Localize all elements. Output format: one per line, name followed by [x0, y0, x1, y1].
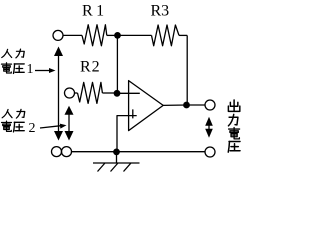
- ground symbol: [93, 152, 140, 172]
- wire: input1 terminal to R1: [63, 34, 82, 36]
- resistor R2: [78, 82, 103, 103]
- arrow: input voltage 2 measure (double-headed, x=69): [68, 110, 70, 136]
- terminal: input 2 (middle left circle): [65, 88, 75, 98]
- label: den-atsu 1 (voltage 1): [2, 63, 12, 73]
- svg-text:2: 2: [29, 121, 36, 136]
- svg-text:R1: R1: [82, 3, 108, 20]
- wire: bottom common rail: [72, 151, 205, 153]
- terminal: output + (top right circle): [205, 100, 215, 110]
- wire: node A down to inverting input: [116, 35, 118, 93]
- wire: node A to R3: [118, 34, 152, 36]
- label: output voltage column 出力電圧: [228, 100, 239, 111]
- wire: op-amp output to output node: [163, 104, 204, 106]
- wire: non-inverting input from ground rail: [117, 116, 129, 152]
- label: nyuuryoku (input) line1: [2, 49, 12, 57]
- leader arrow: label input voltage 2: [40, 126, 61, 128]
- svg-text:R2: R2: [80, 59, 101, 76]
- wire: R3 to feedback corner: [179, 34, 187, 36]
- junction dot: inverting input node: [114, 90, 121, 97]
- terminal: common left B (bottom left circle 2): [62, 147, 72, 157]
- label: den-atsu 2 (voltage 2): [2, 121, 12, 131]
- svg-text:R3: R3: [151, 3, 170, 20]
- node A junction dot (R1/R3/inverting branch): [114, 32, 121, 39]
- wire: input2 terminal to R2: [75, 92, 78, 94]
- resistor R1: [82, 25, 107, 46]
- svg-text:1: 1: [27, 62, 34, 77]
- arrow: input voltage 1 measure (double-headed, x=58.5): [58, 51, 60, 136]
- wire: inverting input into op-amp (minus lead): [117, 92, 140, 94]
- junction dot: ground node on common rail: [113, 149, 120, 156]
- wire: R2 to inverting node dot: [102, 92, 117, 94]
- resistor R3: [152, 25, 180, 46]
- wire: feedback vertical down to output node: [186, 35, 188, 105]
- terminal: common left A (bottom left circle 1): [52, 147, 62, 157]
- output node junction dot: [183, 102, 190, 109]
- leader arrow: label input voltage 1: [35, 70, 50, 72]
- wire: R1 to node A: [107, 34, 118, 36]
- arrow: output voltage measure (double-headed, x=209): [208, 121, 210, 134]
- terminal: output - (bottom right circle): [205, 147, 215, 157]
- op-amp U1 triangle: [129, 81, 164, 131]
- op-amp plus sign: [129, 109, 137, 118]
- terminal: input 1 (top left circle): [53, 30, 63, 40]
- label: nyuuryoku (input) line2: [2, 109, 12, 117]
